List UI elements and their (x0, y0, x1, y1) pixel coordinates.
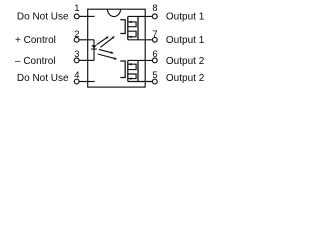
svg-text:6: 6 (152, 48, 157, 59)
svg-text:+ Control: + Control (15, 35, 56, 46)
svg-text:7: 7 (152, 28, 157, 39)
svg-text:8: 8 (152, 2, 157, 13)
svg-text:2: 2 (74, 28, 79, 39)
svg-text:1: 1 (74, 2, 79, 13)
svg-text:Do Not Use: Do Not Use (17, 11, 69, 22)
svg-text:Output 2: Output 2 (166, 56, 205, 67)
svg-text:Output 1: Output 1 (166, 35, 205, 46)
svg-text:– Control: – Control (15, 56, 56, 67)
svg-text:Do Not Use: Do Not Use (17, 73, 69, 84)
svg-text:4: 4 (74, 69, 79, 80)
svg-text:Output 2: Output 2 (166, 73, 205, 84)
svg-text:Output 1: Output 1 (166, 11, 205, 22)
svg-text:5: 5 (152, 69, 157, 80)
svg-text:3: 3 (74, 48, 79, 59)
